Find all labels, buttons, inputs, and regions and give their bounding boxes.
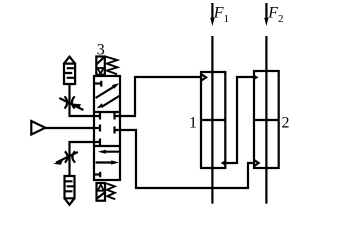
top box flow arrow SW	[102, 96, 121, 107]
top actuator solenoid diagonal	[96, 57, 105, 65]
cylinder 2 piston	[254, 119, 279, 121]
bottom actuator solenoid diagonal	[97, 192, 106, 198]
top throttle adjust arrow	[59, 98, 83, 110]
pneumatic source triangle	[31, 121, 45, 135]
svg-text:3: 3	[97, 42, 105, 59]
wire B: valve right row2 down and to cylinder 2 bottom port	[120, 130, 253, 188]
bottom box blocked port T	[94, 172, 100, 178]
wire: source to valve left port	[45, 127, 94, 129]
middle box blocked port T left row2	[94, 125, 100, 132]
cylinder 2 body	[254, 71, 279, 168]
force F2 arrow	[265, 3, 267, 19]
top actuator pilot triangle (down)	[98, 68, 104, 74]
cylinder 1 top port open arrowhead	[201, 74, 206, 80]
top return spring	[106, 57, 118, 75]
middle box blocked port T left row1	[94, 113, 100, 120]
top silencer baffle dashes	[64, 68, 75, 78]
bottom silencer baffle dashes	[65, 181, 75, 191]
valve box divider middle/bottom	[94, 145, 120, 147]
bottom return spring	[106, 183, 115, 199]
link wire: cylinder 1 bottom to cylinder 2 top	[225, 77, 253, 163]
cylinder 1 rod	[211, 36, 213, 204]
wire A: valve right row1 to cylinder 1 top port	[120, 77, 200, 116]
middle box blocked port T right row2	[115, 127, 121, 134]
svg-text:F2: F2	[267, 5, 283, 25]
bottom throttle valve arcs	[65, 151, 75, 162]
top silencer	[64, 57, 75, 84]
top box flow arrow NE	[96, 86, 115, 98]
bottom actuator pilot triangle (up)	[98, 185, 104, 191]
force F1 arrow	[211, 3, 213, 19]
bottom throttle adjust arrow	[56, 152, 78, 163]
middle box blocked port T right row1	[115, 113, 121, 120]
cylinder 2 rod	[265, 36, 267, 204]
top box blocked port T	[94, 81, 101, 87]
svg-text:1: 1	[189, 115, 197, 132]
cylinder 2 top port filled arrowhead	[254, 75, 259, 80]
top pilot/solenoid actuator box	[96, 57, 105, 75]
wire: valve bottom-left port to bottom silencer	[70, 142, 95, 176]
cylinder 1 body	[201, 72, 225, 168]
wire: silencer to valve top-left port	[70, 84, 95, 116]
bottom box flow arrow pointing left	[103, 151, 120, 153]
bottom pilot/solenoid actuator box	[97, 183, 106, 201]
svg-text:F1: F1	[213, 5, 229, 25]
valve box divider top/middle	[94, 111, 120, 113]
cylinder 2 bottom port open arrowhead	[254, 160, 259, 166]
cylinder 1 piston	[201, 119, 225, 121]
top throttle valve arcs	[65, 96, 75, 108]
bottom silencer	[65, 176, 75, 205]
middle box blocked port T left row3	[94, 139, 100, 146]
valve main body (5/3 valve, vertical)	[94, 76, 120, 180]
bottom box flow arrow pointing right	[96, 161, 112, 163]
svg-text:2: 2	[282, 115, 290, 132]
cylinder 1 bottom port filled arrowhead	[221, 160, 226, 165]
